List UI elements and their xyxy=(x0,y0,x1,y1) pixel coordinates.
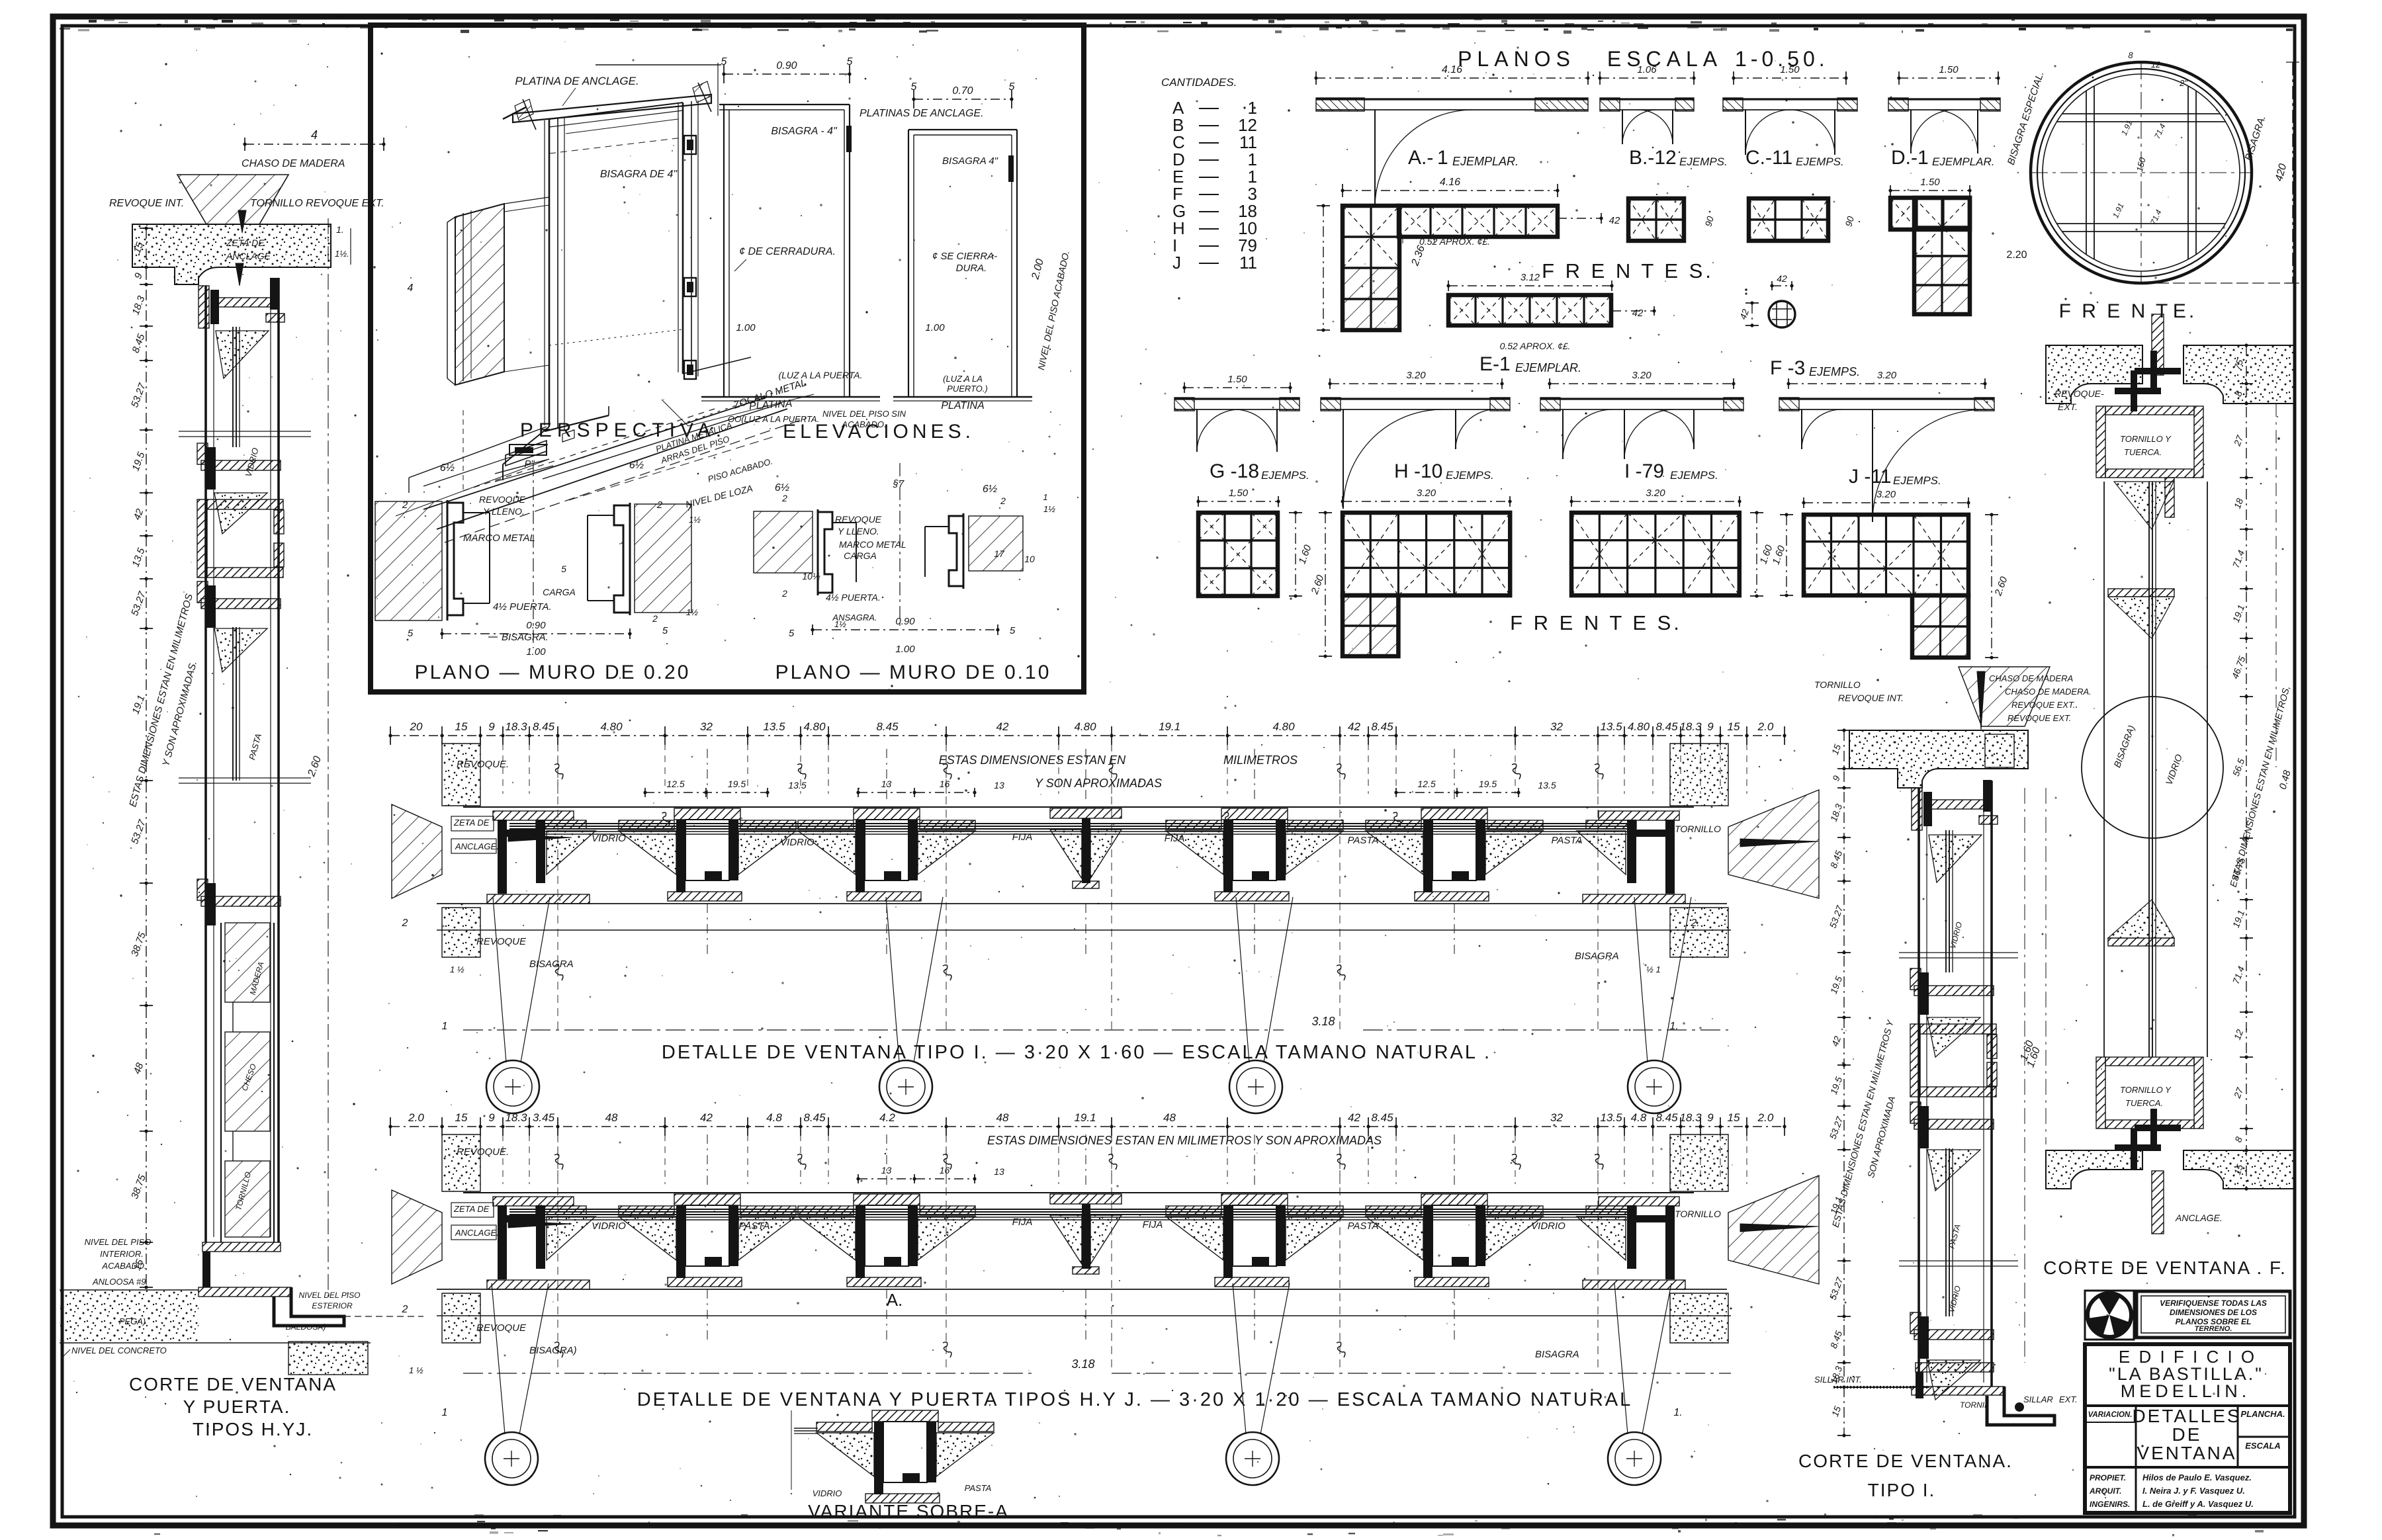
svg-text:REVOQUE INT.: REVOQUE INT. xyxy=(109,198,184,209)
svg-text:REVOQUE: REVOQUE xyxy=(479,494,526,505)
svg-text:2.: 2. xyxy=(1690,918,1699,929)
svg-text:EXT.: EXT. xyxy=(2059,1394,2078,1404)
svg-text:3.20: 3.20 xyxy=(1406,370,1426,381)
corte de ventana F (vertical section) xyxy=(2152,314,2164,375)
svg-text:4.80: 4.80 xyxy=(1628,720,1650,733)
svg-text:1.: 1. xyxy=(336,224,344,235)
svg-text:8.45: 8.45 xyxy=(1655,720,1678,733)
svg-text:NIVEL DEL CONCRETO: NIVEL DEL CONCRETO xyxy=(71,1346,167,1355)
elevacion derecha (door elevation right) xyxy=(908,129,1017,130)
svg-text:8.45: 8.45 xyxy=(1371,720,1393,733)
svg-text:PUERTO.): PUERTO.) xyxy=(947,384,988,394)
svg-text:6½: 6½ xyxy=(440,462,455,474)
svg-text:EJEMPS.: EJEMPS. xyxy=(1809,365,1860,378)
svg-text:PASTA: PASTA xyxy=(1348,835,1379,846)
svg-text:VENTANA: VENTANA xyxy=(2137,1443,2236,1463)
svg-text:INTERIOR.: INTERIOR. xyxy=(100,1249,144,1259)
svg-text:FIJA: FIJA xyxy=(1012,832,1033,843)
svg-text:DURA.: DURA. xyxy=(956,263,987,274)
svg-text:13.5: 13.5 xyxy=(763,720,785,733)
svg-text:4.16: 4.16 xyxy=(1440,177,1460,188)
title block logo xyxy=(2085,1291,2134,1340)
svg-text:REVOQUE: REVOQUE xyxy=(835,514,882,525)
corte de ventana y puerta tipos H.YJ (left vertical section) xyxy=(245,144,384,145)
svg-text:ANCLAGE: ANCLAGE xyxy=(226,251,271,261)
svg-text:3.20: 3.20 xyxy=(1646,488,1665,499)
svg-text:TORNILLO REVOQUE EXT.: TORNILLO REVOQUE EXT. xyxy=(250,198,384,209)
svg-text:3.20: 3.20 xyxy=(1632,370,1652,381)
svg-text:1: 1 xyxy=(442,1407,448,1418)
svg-text:VIDRIO: VIDRIO xyxy=(592,1220,626,1232)
svg-text:2: 2 xyxy=(652,613,658,624)
svg-text:15: 15 xyxy=(1728,1111,1740,1124)
svg-text:4.16: 4.16 xyxy=(1442,64,1462,75)
window grid G xyxy=(1198,501,1278,502)
plan strip A xyxy=(1316,77,1588,79)
svg-text:PLATINA DE ANCLAGE.: PLATINA DE ANCLAGE. xyxy=(515,75,639,87)
svg-text:P": P" xyxy=(524,458,535,470)
svg-text:A.-: A.- xyxy=(1408,147,1433,169)
svg-text:MEDELLIN.: MEDELLIN. xyxy=(2121,1381,2251,1401)
svg-text:1.50: 1.50 xyxy=(1920,177,1940,188)
inset panel border (perspectiva/elevaciones/planos) xyxy=(371,25,1084,692)
svg-text:NIVEL DEL PISO SIN: NIVEL DEL PISO SIN xyxy=(822,409,906,419)
svg-text:EJEMPLAR.: EJEMPLAR. xyxy=(1515,361,1581,374)
svg-text:B.-12: B.-12 xyxy=(1629,147,1677,169)
svg-text:2": 2" xyxy=(2179,78,2188,88)
svg-text:8.45: 8.45 xyxy=(876,720,899,733)
svg-text:EXT.: EXT. xyxy=(2058,402,2078,412)
svg-text:TORNILLO Y: TORNILLO Y xyxy=(2120,434,2172,444)
svg-text:C.-11: C.-11 xyxy=(1745,147,1792,169)
svg-text:4.80: 4.80 xyxy=(803,720,826,733)
svg-text:F -3: F -3 xyxy=(1770,357,1805,379)
svg-text:I -79: I -79 xyxy=(1624,460,1664,482)
svg-text:F R E N T E S.: F R E N T E S. xyxy=(1510,611,1682,634)
svg-text:5: 5 xyxy=(789,628,795,639)
svg-text:20: 20 xyxy=(410,720,423,733)
svg-text:(LUZ A LA: (LUZ A LA xyxy=(943,374,983,384)
svg-text:19.1: 19.1 xyxy=(1159,720,1180,733)
svg-text:VARIACION.: VARIACION. xyxy=(2088,1411,2133,1419)
svg-text:3.18: 3.18 xyxy=(1071,1357,1094,1371)
svg-text:10½: 10½ xyxy=(802,571,820,581)
svg-text:EJEMPS.: EJEMPS. xyxy=(1670,469,1718,482)
svg-text:¢ SE CIERRA-: ¢ SE CIERRA- xyxy=(932,251,997,262)
svg-text:12: 12 xyxy=(2151,60,2161,69)
svg-text:19.5: 19.5 xyxy=(1479,779,1497,789)
svg-text:5: 5 xyxy=(721,56,727,67)
svg-text:TORNILLO: TORNILLO xyxy=(1814,679,1861,690)
svg-text:17: 17 xyxy=(994,548,1005,559)
svg-text:PROPIET.: PROPIET. xyxy=(2090,1473,2126,1482)
svg-text:Y SON APROXIMADAS: Y SON APROXIMADAS xyxy=(1035,777,1162,790)
svg-text:G -18: G -18 xyxy=(1210,460,1259,482)
svg-text:PERSPECTIVA.: PERSPECTIVA. xyxy=(520,419,727,441)
hinge circles detail 1 xyxy=(493,897,506,1062)
svg-text:4.8: 4.8 xyxy=(766,1111,782,1124)
svg-text:A.: A. xyxy=(887,1290,903,1310)
svg-text:0.90: 0.90 xyxy=(776,60,797,71)
svg-text:VIDRIO: VIDRIO xyxy=(780,837,815,848)
window elevation A (L-shape grid) xyxy=(1343,190,1558,191)
svg-text:H -10: H -10 xyxy=(1394,460,1442,482)
detail 2 sub-dims xyxy=(858,1178,975,1179)
svg-text:I. Neira J. y F. Vasquez U.: I. Neira J. y F. Vasquez U. xyxy=(2142,1486,2245,1496)
svg-text:Y LLENO.: Y LLENO. xyxy=(483,506,525,517)
svg-text:9: 9 xyxy=(1707,1111,1714,1124)
svg-text:PEGA): PEGA) xyxy=(119,1316,146,1326)
svg-text:4.8: 4.8 xyxy=(1631,1111,1647,1124)
scan speckle noise xyxy=(1485,72,1487,73)
svg-text:BISAGRA DE 4": BISAGRA DE 4" xyxy=(600,169,678,180)
svg-text:0.52 APROX. ¢£.: 0.52 APROX. ¢£. xyxy=(1500,341,1571,351)
svg-text:TORNILLO: TORNILLO xyxy=(1675,1209,1721,1219)
detail 1 frame band xyxy=(463,806,1694,808)
svg-text:DETALLE DE VENTANA Y PUERT: DETALLE DE VENTANA Y PUERTA TIPOS H.Y J.… xyxy=(637,1389,1633,1410)
plan strip C xyxy=(1734,77,1846,79)
svg-text:CORTE DE VENTANA.: CORTE DE VENTANA. xyxy=(1798,1451,2013,1471)
svg-text:E.: E. xyxy=(2173,300,2197,322)
svg-text:VIDRIO: VIDRIO xyxy=(813,1488,842,1498)
svg-text:REVOQUE-: REVOQUE- xyxy=(2054,388,2104,399)
svg-text:F R E N T E S.: F R E N T E S. xyxy=(1542,259,1714,282)
svg-text:5: 5 xyxy=(408,628,414,639)
svg-text:13.5: 13.5 xyxy=(1600,720,1622,733)
svg-text:1.00: 1.00 xyxy=(736,322,756,333)
svg-text:FIJA: FIJA xyxy=(1143,1219,1163,1230)
detail 2 lower dim line with 3.18 xyxy=(463,1373,1032,1374)
detail 2 frame band xyxy=(463,1192,1694,1193)
svg-text:32: 32 xyxy=(1550,1111,1563,1124)
svg-text:TORNIL: TORNIL xyxy=(1960,1400,1989,1410)
svg-text:ACABADO.: ACABADO. xyxy=(101,1261,146,1271)
svg-text:1.50: 1.50 xyxy=(1780,64,1800,75)
svg-text:VIDRIO: VIDRIO xyxy=(592,833,626,844)
svg-text:2.20: 2.20 xyxy=(2006,249,2027,261)
svg-text:J: J xyxy=(1172,253,1181,273)
hinge circles detail 2 xyxy=(492,1283,505,1434)
detail 1 walls xyxy=(442,744,480,806)
svg-text:2: 2 xyxy=(402,499,408,511)
svg-text:PLANOS: PLANOS xyxy=(1458,47,1575,71)
plan strip I xyxy=(1550,383,1734,384)
svg-text:4.2: 4.2 xyxy=(879,1111,895,1124)
title block main box xyxy=(2085,1344,2290,1513)
svg-text:MILIMETROS: MILIMETROS xyxy=(1223,753,1298,767)
svg-text:42: 42 xyxy=(1777,273,1787,284)
svg-text:FIJA: FIJA xyxy=(1165,833,1185,844)
svg-text:VERIFIQUENSE TODAS LAS: VERIFIQUENSE TODAS LAS xyxy=(2160,1299,2267,1308)
svg-text:15: 15 xyxy=(455,1111,468,1124)
svg-text:18.3: 18.3 xyxy=(505,720,527,733)
svg-text:13: 13 xyxy=(994,780,1004,791)
plan/elevation strip E xyxy=(1448,285,1612,286)
svg-text:3.20: 3.20 xyxy=(1417,488,1436,499)
plan strip B xyxy=(1600,77,1694,79)
svg-text:13: 13 xyxy=(994,1166,1004,1177)
svg-text:MARCO METAL: MARCO METAL xyxy=(463,533,535,544)
svg-text:EJEMPLAR.: EJEMPLAR. xyxy=(1932,155,1994,168)
svg-text:PASTA: PASTA xyxy=(739,1220,770,1232)
svg-text:L. de Greiff y A. Vasquez U.: L. de Greiff y A. Vasquez U. xyxy=(2142,1499,2254,1509)
detail 1 lower dim line with 3.18 xyxy=(463,1029,1284,1031)
variante sobre-A drawing xyxy=(872,1410,938,1422)
svg-text:Y PUERTA.: Y PUERTA. xyxy=(183,1396,291,1417)
svg-text:1.50: 1.50 xyxy=(1939,64,1959,75)
svg-text:SILLAR: SILLAR xyxy=(2023,1394,2053,1404)
svg-text:1.00: 1.00 xyxy=(895,644,915,655)
svg-text:1½: 1½ xyxy=(834,619,846,629)
svg-text:8: 8 xyxy=(2128,50,2133,60)
plan strip H xyxy=(1330,383,1502,384)
svg-text:1.50: 1.50 xyxy=(1227,374,1247,385)
svg-text:13.5: 13.5 xyxy=(788,780,806,791)
svg-text:7: 7 xyxy=(687,502,693,513)
svg-text:48: 48 xyxy=(605,1111,618,1124)
svg-text:½ 1: ½ 1 xyxy=(1646,964,1661,974)
svg-text:ANLOOSA #9: ANLOOSA #9 xyxy=(92,1277,146,1287)
svg-text:1: 1 xyxy=(1437,147,1448,169)
svg-text:PLANO — MURO DE 0.10: PLANO — MURO DE 0.10 xyxy=(775,662,1051,683)
svg-text:1.00: 1.00 xyxy=(526,646,546,658)
detalle de ventana tipo I : top dimension chain xyxy=(390,735,1785,736)
svg-text:1 ½: 1 ½ xyxy=(409,1365,423,1375)
detail 1 squiggle break marks xyxy=(554,764,563,779)
svg-text:1.: 1. xyxy=(1673,1407,1682,1418)
svg-text:32: 32 xyxy=(700,720,713,733)
svg-text:42: 42 xyxy=(700,1111,713,1124)
svg-text:DIMENSIONES DE LOS: DIMENSIONES DE LOS xyxy=(2170,1308,2257,1317)
plan strip J xyxy=(1788,383,1985,384)
svg-text:E-1: E-1 xyxy=(1479,353,1511,375)
svg-text:PASTA: PASTA xyxy=(1348,1220,1379,1232)
svg-text:5: 5 xyxy=(911,81,917,93)
svg-text:3.45: 3.45 xyxy=(533,1111,555,1124)
svg-text:2: 2 xyxy=(781,493,787,503)
svg-text:REVOQUE: REVOQUE xyxy=(476,936,527,947)
svg-text:19.1: 19.1 xyxy=(1074,1111,1096,1124)
svg-text:FIJA: FIJA xyxy=(1012,1217,1033,1228)
svg-text:1: 1 xyxy=(442,1021,448,1032)
svg-text:INGENIRS.: INGENIRS. xyxy=(2090,1500,2130,1509)
svg-text:CORTE DE VENTANA . F.: CORTE DE VENTANA . F. xyxy=(2043,1258,2287,1278)
svg-text:REVOQUE.: REVOQUE. xyxy=(457,1146,509,1158)
svg-text:18.3: 18.3 xyxy=(1679,1111,1702,1124)
svg-text:ZETA DE: ZETA DE xyxy=(453,818,490,828)
svg-text:4½ PUERTA.: 4½ PUERTA. xyxy=(826,592,881,603)
svg-text:5: 5 xyxy=(662,625,668,636)
svg-text:32: 32 xyxy=(1550,720,1563,733)
svg-text:48: 48 xyxy=(1163,1111,1176,1124)
svg-text:1½: 1½ xyxy=(689,515,701,525)
svg-text:12.5: 12.5 xyxy=(1417,779,1435,789)
svg-text:D.-1: D.-1 xyxy=(1891,147,1929,169)
svg-text:ZETA DE: ZETA DE xyxy=(453,1204,490,1214)
window elevation D (L-shape grid) xyxy=(1890,190,1970,191)
svg-text:2.0: 2.0 xyxy=(408,1111,424,1124)
svg-text:16: 16 xyxy=(940,779,950,789)
svg-text:3.12: 3.12 xyxy=(1521,272,1540,283)
svg-text:1: 1 xyxy=(1043,492,1047,502)
svg-text:13.5: 13.5 xyxy=(1600,1111,1622,1124)
svg-text:15: 15 xyxy=(455,720,468,733)
svg-text:13.5: 13.5 xyxy=(1538,780,1556,791)
svg-text:PASTA: PASTA xyxy=(1552,835,1583,846)
svg-text:42: 42 xyxy=(1609,215,1620,226)
svg-text:42: 42 xyxy=(996,720,1009,733)
svg-text:Hilos de Paulo E. Vasquez.: Hilos de Paulo E. Vasquez. xyxy=(2142,1473,2252,1482)
svg-text:11: 11 xyxy=(1239,253,1257,273)
svg-text:2: 2 xyxy=(781,588,787,599)
svg-text:ANCLAGE.: ANCLAGE. xyxy=(455,1228,499,1238)
svg-text:0.90: 0.90 xyxy=(526,620,546,631)
svg-text:15: 15 xyxy=(1728,720,1740,733)
svg-text:EJEMPS.: EJEMPS. xyxy=(1446,469,1494,482)
svg-text:EJEMPS.: EJEMPS. xyxy=(1679,155,1728,168)
svg-text:4: 4 xyxy=(408,282,414,294)
svg-text:ESCALA: ESCALA xyxy=(2245,1441,2280,1451)
svg-text:2.0: 2.0 xyxy=(1757,720,1774,733)
svg-text:8.45: 8.45 xyxy=(803,1111,826,1124)
svg-text:ESTERIOR: ESTERIOR xyxy=(312,1301,353,1310)
svg-text:NIVEL DEL PISO: NIVEL DEL PISO xyxy=(299,1291,361,1300)
window grid I xyxy=(1571,501,1740,502)
witness verticals detail 1 xyxy=(441,744,443,794)
window grid J (L-shape) xyxy=(1804,502,1968,503)
svg-text:CARGA: CARGA xyxy=(543,587,576,597)
svg-text:1 ½: 1 ½ xyxy=(450,964,464,974)
plano muro 0.10 drawing xyxy=(754,511,813,573)
svg-text:5: 5 xyxy=(1010,625,1016,636)
svg-text:4½ PUERTA.: 4½ PUERTA. xyxy=(493,601,552,613)
svg-text:ANCLAGE.: ANCLAGE. xyxy=(2175,1213,2223,1223)
svg-text:8.45: 8.45 xyxy=(533,720,555,733)
svg-text:TUERCA.: TUERCA. xyxy=(2124,447,2162,457)
svg-text:4.80: 4.80 xyxy=(1272,720,1295,733)
svg-text:4.80: 4.80 xyxy=(600,720,623,733)
svg-text:BISAGRA 4": BISAGRA 4" xyxy=(942,155,998,167)
round window F (42 dia plan) xyxy=(1769,301,1795,327)
svg-text:1½: 1½ xyxy=(686,607,698,617)
svg-text:5: 5 xyxy=(847,56,853,67)
svg-text:TUERCA.: TUERCA. xyxy=(2125,1098,2163,1108)
svg-text:1½.: 1½. xyxy=(335,249,349,259)
svg-text:(LUZ A LA PUERTA.: (LUZ A LA PUERTA. xyxy=(778,370,862,380)
svg-text:3.20: 3.20 xyxy=(1876,489,1896,500)
svg-text:3.20: 3.20 xyxy=(1877,370,1897,381)
svg-text:NIVEL DEL PISO: NIVEL DEL PISO xyxy=(85,1237,152,1247)
svg-text:42: 42 xyxy=(1348,1111,1360,1124)
svg-text:J -11: J -11 xyxy=(1849,466,1891,488)
svg-text:12.5: 12.5 xyxy=(666,779,684,789)
svg-text:CARGA: CARGA xyxy=(844,550,877,561)
svg-text:CORTE DE VENTANA: CORTE DE VENTANA xyxy=(129,1374,337,1394)
title block warning box xyxy=(2137,1291,2290,1338)
svg-text:ARQUIT.: ARQUIT. xyxy=(2089,1486,2121,1496)
svg-text:REVOQUE.: REVOQUE. xyxy=(457,759,509,770)
frente round window elevation xyxy=(2031,62,2252,283)
window elevation C xyxy=(1774,198,1776,241)
svg-text:42: 42 xyxy=(1632,308,1644,319)
svg-text:5: 5 xyxy=(561,564,566,574)
elevacion izquierda (door elevation left) xyxy=(719,104,850,105)
svg-text:TIPOS H.YJ.: TIPOS H.YJ. xyxy=(193,1419,313,1439)
svg-text:BISAGRA: BISAGRA xyxy=(1575,951,1619,962)
detail 2 squiggle break marks xyxy=(554,1154,563,1170)
svg-text:18.3: 18.3 xyxy=(505,1111,527,1124)
svg-text:ANCLAGE.: ANCLAGE. xyxy=(455,841,499,851)
svg-text:4.80: 4.80 xyxy=(1074,720,1096,733)
svg-text:1.06: 1.06 xyxy=(1637,64,1657,75)
svg-text:0.52 APROX. ¢£.: 0.52 APROX. ¢£. xyxy=(1419,236,1490,247)
svg-text:EJEMPLAR.: EJEMPLAR. xyxy=(1452,155,1519,168)
svg-text:DETALLE DE VENTANA TIPO: DETALLE DE VENTANA TIPO I. — 3·20 X 1·60… xyxy=(662,1042,1491,1063)
detail 2 walls xyxy=(442,1134,480,1191)
svg-text:0.90: 0.90 xyxy=(895,616,915,627)
svg-text:BALDOSA): BALDOSA) xyxy=(286,1322,326,1332)
svg-text:Y LLENO.: Y LLENO. xyxy=(838,526,879,536)
svg-text:CANTIDADES.: CANTIDADES. xyxy=(1161,76,1237,89)
svg-text:TIPO I.: TIPO I. xyxy=(1868,1480,1936,1500)
svg-text:6½: 6½ xyxy=(983,484,997,495)
plano muro 0.20 drawing xyxy=(375,501,442,620)
svg-text:§7: §7 xyxy=(893,478,904,490)
window grid H (L-shape) xyxy=(1343,501,1510,502)
perspectiva drawing xyxy=(595,64,721,65)
svg-text:¢ DE CERRADURA.: ¢ DE CERRADURA. xyxy=(739,246,836,257)
svg-text:2: 2 xyxy=(1000,495,1006,506)
svg-text:REVOQUE EXT.: REVOQUE EXT. xyxy=(2007,713,2071,723)
svg-text:EJEMPS.: EJEMPS. xyxy=(1796,155,1844,168)
svg-text:EJEMPS.: EJEMPS. xyxy=(1893,474,1941,487)
svg-text:6½: 6½ xyxy=(775,482,789,493)
svg-text:PLANCHA.: PLANCHA. xyxy=(2240,1409,2285,1419)
svg-text:BISAGRA - 4": BISAGRA - 4" xyxy=(771,126,838,137)
svg-text:10: 10 xyxy=(1024,554,1035,564)
svg-text:3.18: 3.18 xyxy=(1311,1015,1335,1028)
svg-text:5: 5 xyxy=(1009,81,1015,93)
svg-text:ELEVACIONES.: ELEVACIONES. xyxy=(783,421,975,443)
svg-text:9: 9 xyxy=(488,720,495,733)
svg-text:2: 2 xyxy=(656,499,663,511)
svg-text:8.45: 8.45 xyxy=(1655,1111,1678,1124)
svg-text:2: 2 xyxy=(402,918,408,929)
plan strip D xyxy=(1899,77,1998,79)
svg-text:8.45: 8.45 xyxy=(1371,1111,1393,1124)
svg-text:CHASO DE MADERA: CHASO DE MADERA xyxy=(242,158,345,169)
svg-text:TORNILLO Y: TORNILLO Y xyxy=(2120,1085,2172,1095)
svg-text:19.5: 19.5 xyxy=(728,779,746,789)
svg-text:DETALLES: DETALLES xyxy=(2132,1406,2241,1426)
svg-text:VIDRIO: VIDRIO xyxy=(1531,1220,1566,1232)
svg-text:PLANO — MURO DE 0.20: PLANO — MURO DE 0.20 xyxy=(415,662,691,683)
svg-text:REVOQUE INT.: REVOQUE INT. xyxy=(1838,693,1904,703)
svg-text:PLATINA: PLATINA xyxy=(941,400,985,411)
svg-text:18.3: 18.3 xyxy=(1679,720,1702,733)
svg-text:VARIANTE SOBRE-A .: VARIANTE SOBRE-A . xyxy=(808,1501,1021,1521)
svg-text:TERRENO.: TERRENO. xyxy=(2195,1325,2232,1333)
svg-text:EJEMPS.: EJEMPS. xyxy=(1261,469,1309,482)
svg-text:CHASO DE MADERA.: CHASO DE MADERA. xyxy=(2005,687,2092,697)
svg-text:REVOQUE: REVOQUE xyxy=(476,1322,527,1334)
svg-text:ESTAS DIMENSIONES ESTAN EN MIL: ESTAS DIMENSIONES ESTAN EN MILIMETROS Y … xyxy=(987,1134,1382,1147)
svg-text:BISAGRA: BISAGRA xyxy=(1535,1349,1579,1360)
svg-text:PASTA: PASTA xyxy=(965,1483,992,1493)
svg-text:ESCALA: ESCALA xyxy=(1607,47,1722,71)
svg-text:9: 9 xyxy=(1707,720,1714,733)
svg-text:BISAGRA: BISAGRA xyxy=(529,959,574,970)
